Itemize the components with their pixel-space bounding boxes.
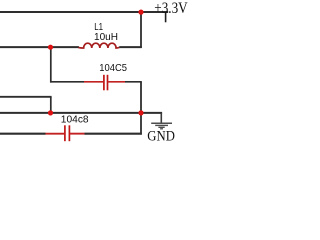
ground stem: [160, 113, 162, 123]
svg-text:GND: GND: [147, 129, 175, 144]
wire fourth rail: [0, 112, 162, 114]
node junction on fourth rail right: [138, 110, 143, 115]
capacitor C5 left lead dark: [50, 81, 84, 83]
wire vertical junction to bottom rail: [140, 113, 142, 135]
capacitor C5 right plate: [107, 75, 109, 91]
capacitor C8 left plate: [64, 125, 66, 141]
wire second rail right segment to vertical: [119, 46, 142, 48]
wire bottom rail dark left: [0, 133, 46, 135]
svg-text:104C5: 104C5: [99, 63, 127, 74]
capacitor C5 right lead dark: [125, 81, 142, 83]
svg-text:+3.3V: +3.3V: [154, 0, 188, 17]
ground bar 1: [151, 122, 172, 124]
wire vertical from top rail to L1 rail: [140, 12, 142, 48]
wire second rail left segment: [0, 46, 79, 48]
node junction on second rail: [48, 45, 53, 50]
capacitor C5 right lead red: [108, 81, 125, 83]
svg-text:104c8: 104c8: [61, 115, 89, 126]
capacitor C5 left plate: [103, 75, 105, 91]
ground bar 3: [158, 126, 164, 128]
wire vertical third rail down to fourth rail: [50, 97, 52, 114]
wire third rail: [0, 96, 52, 98]
node junction on top rail: [138, 10, 143, 15]
node junction on fourth rail left: [48, 110, 53, 115]
capacitor C8 left lead red: [46, 133, 65, 135]
capacitor C5 left lead red: [84, 81, 103, 83]
power +3.3V stem: [165, 12, 167, 22]
wire vertical from node down to C5: [50, 47, 52, 82]
capacitor C8 right lead red: [70, 133, 85, 135]
capacitor C8 right plate: [68, 125, 70, 141]
wire vertical C5 to bottom junction: [140, 82, 142, 114]
ground bar 2: [155, 124, 168, 126]
ground bar 4: [160, 128, 163, 130]
wire bottom rail dark right: [85, 133, 142, 135]
inductor L1 coil: [78, 43, 119, 48]
svg-text:10uH: 10uH: [94, 32, 118, 43]
wire top rail to +3.3V: [0, 11, 168, 13]
